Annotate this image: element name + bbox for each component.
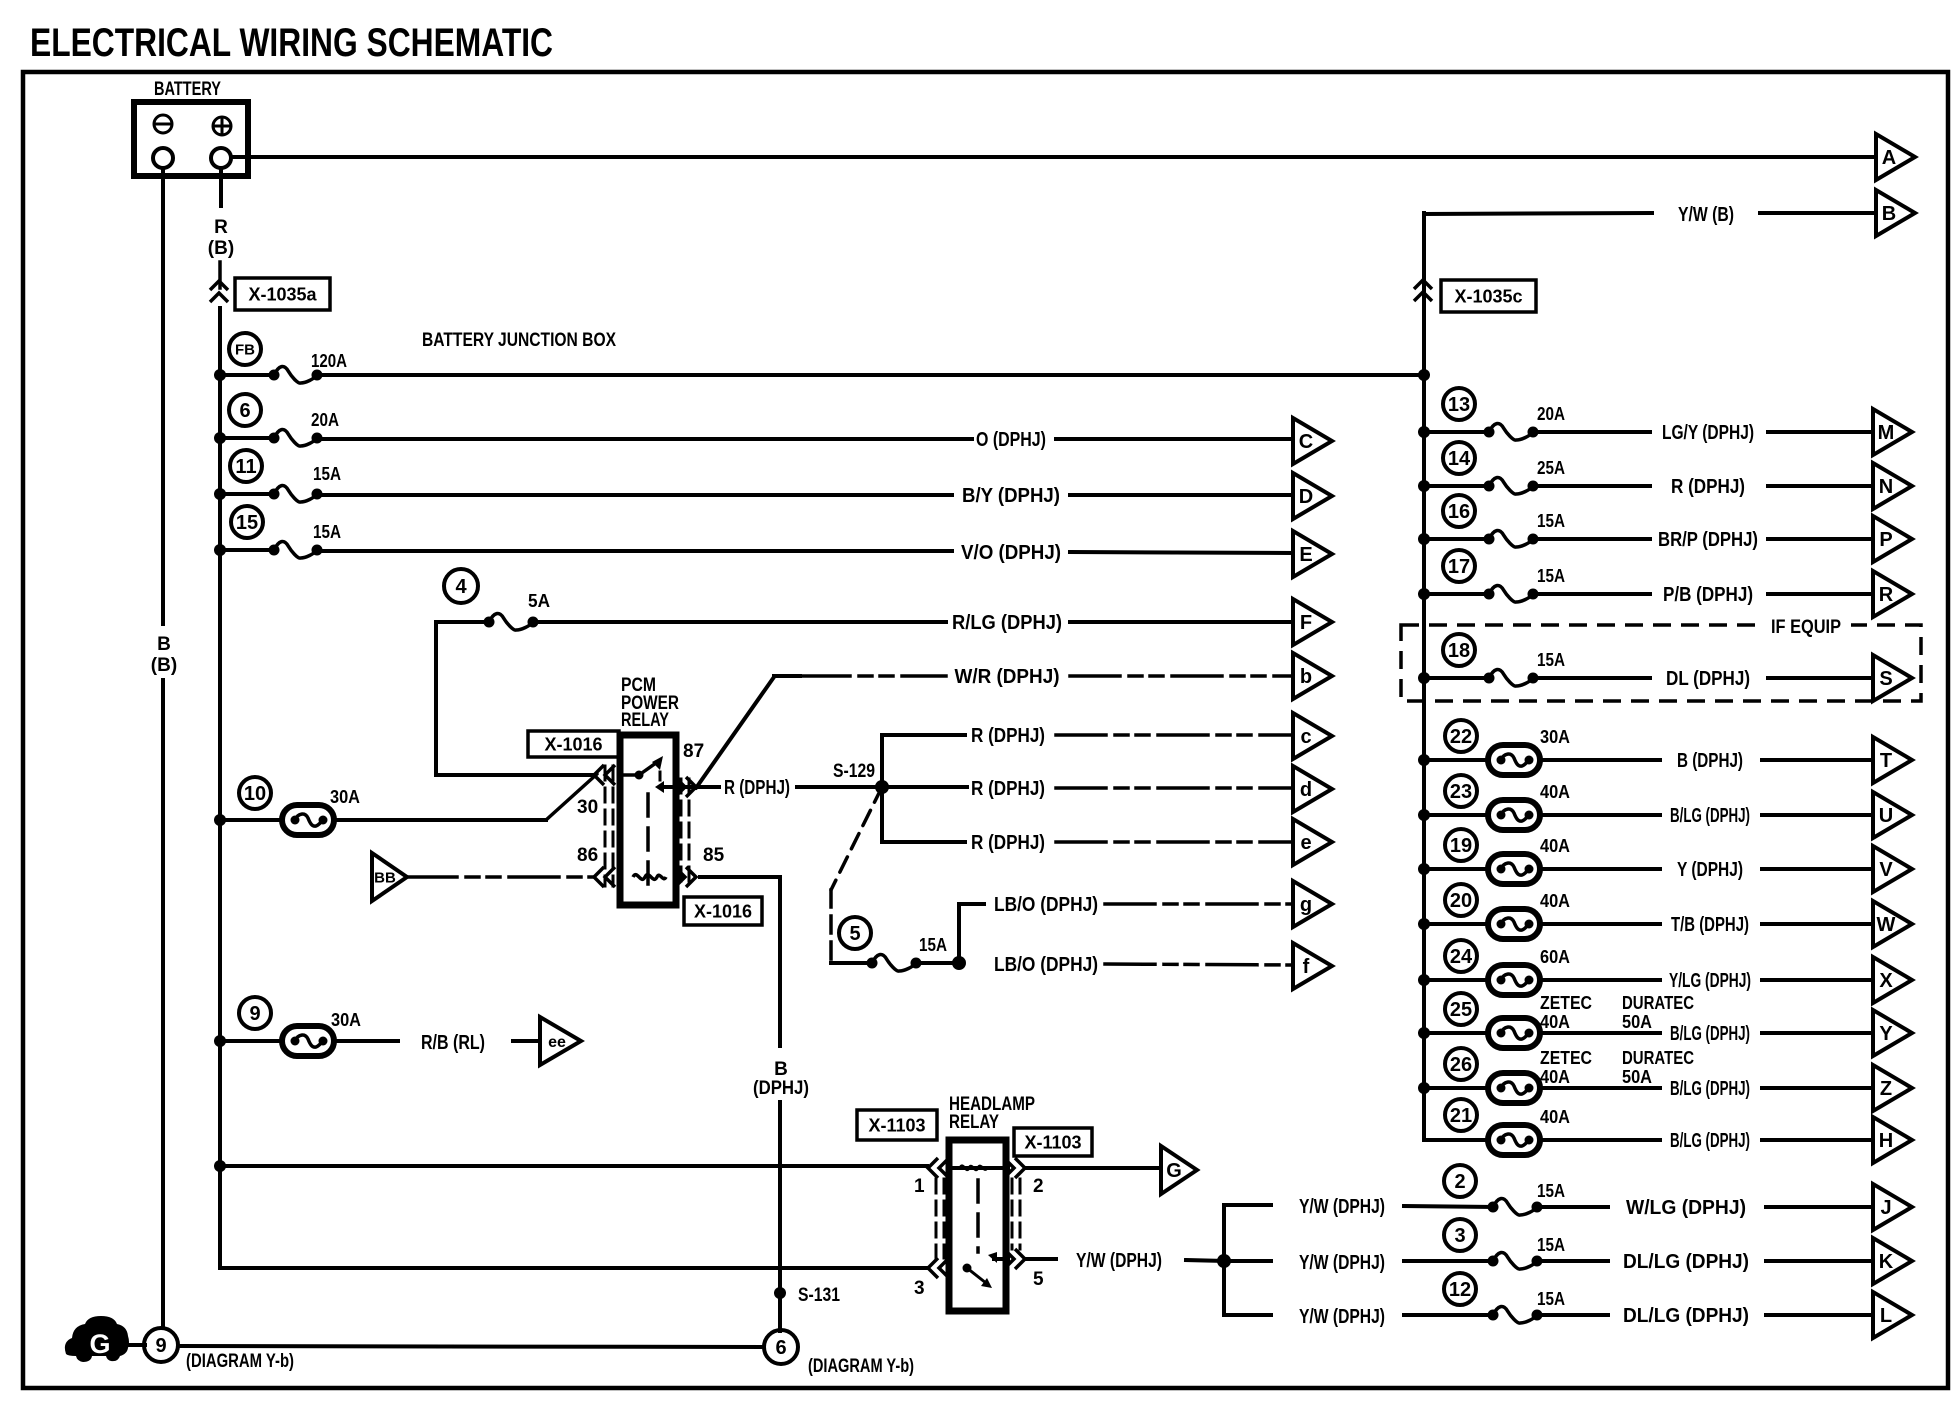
svg-text:B: B bbox=[157, 634, 171, 655]
svg-text:F: F bbox=[1300, 612, 1312, 634]
svg-text:W/R (DPHJ): W/R (DPHJ) bbox=[955, 666, 1060, 688]
svg-text:6: 6 bbox=[239, 400, 250, 422]
wire Y/W (DPHJ) to fuse 3 bbox=[1224, 1259, 1271, 1263]
connector arrow S bbox=[1873, 655, 1912, 701]
wire T/B (DPHJ) row W bbox=[1541, 922, 1660, 926]
svg-text:Y/W (DPHJ): Y/W (DPHJ) bbox=[1299, 1196, 1385, 1218]
svg-text:2: 2 bbox=[1033, 1176, 1044, 1197]
fuse F24 60A bbox=[1445, 940, 1477, 972]
fuse F22 30A bbox=[1445, 720, 1477, 752]
svg-text:D: D bbox=[1299, 486, 1313, 508]
svg-text:18: 18 bbox=[1448, 640, 1470, 662]
svg-text:E: E bbox=[1299, 544, 1312, 566]
svg-text:11: 11 bbox=[235, 456, 256, 478]
svg-text:Y: Y bbox=[1879, 1023, 1893, 1045]
wire B/Y (DPHJ) row D bbox=[317, 493, 952, 497]
fuse F10 30A bbox=[239, 777, 271, 809]
svg-text:20: 20 bbox=[1450, 890, 1472, 912]
wire Y (DPHJ) row V bbox=[1541, 867, 1660, 871]
svg-text:24: 24 bbox=[1450, 946, 1473, 968]
svg-text:DL/LG (DPHJ): DL/LG (DPHJ) bbox=[1623, 1305, 1749, 1327]
svg-text:5A: 5A bbox=[528, 591, 550, 611]
svg-text:30: 30 bbox=[577, 797, 598, 818]
wire pin 2 to arrow G bbox=[1027, 1166, 1161, 1170]
connector arrow N bbox=[1873, 463, 1912, 509]
wire battery positive down R (B) bbox=[219, 168, 223, 206]
svg-text:DURATEC: DURATEC bbox=[1622, 993, 1694, 1013]
svg-text:25A: 25A bbox=[1537, 458, 1565, 478]
connector arrow W bbox=[1873, 901, 1912, 947]
connector arrow A bbox=[1876, 134, 1915, 180]
svg-text:15A: 15A bbox=[919, 935, 947, 955]
fuse F26 40A bbox=[1445, 1048, 1477, 1080]
svg-text:15A: 15A bbox=[1537, 1235, 1565, 1255]
connector arrow G bbox=[1161, 1146, 1197, 1194]
svg-text:23: 23 bbox=[1450, 781, 1472, 803]
wire Y/W (DPHJ) to fuse 2 bbox=[1224, 1203, 1271, 1207]
svg-text:19: 19 bbox=[1450, 835, 1472, 857]
connector arrow T bbox=[1873, 737, 1912, 783]
svg-text:RELAY: RELAY bbox=[621, 710, 669, 731]
fuse FB 120A bbox=[229, 333, 261, 365]
svg-text:Y/W (B): Y/W (B) bbox=[1678, 204, 1734, 226]
svg-text:13: 13 bbox=[1448, 394, 1470, 416]
connector X-1103 right bbox=[1014, 1128, 1092, 1156]
svg-text:5: 5 bbox=[849, 923, 860, 945]
svg-text:Y (DPHJ): Y (DPHJ) bbox=[1677, 859, 1743, 881]
wire R (DPHJ) pin 87 to S-129 bbox=[698, 785, 719, 789]
wire Y/LG (DPHJ) row X bbox=[1541, 978, 1660, 982]
svg-text:50A: 50A bbox=[1622, 1012, 1652, 1032]
svg-text:R (DPHJ): R (DPHJ) bbox=[724, 777, 790, 799]
svg-text:DL/LG (DPHJ): DL/LG (DPHJ) bbox=[1623, 1251, 1749, 1273]
connector arrow Y bbox=[1873, 1010, 1912, 1056]
svg-text:B/LG (DPHJ): B/LG (DPHJ) bbox=[1670, 1023, 1750, 1045]
connector circle 6 bbox=[764, 1330, 798, 1364]
svg-text:B: B bbox=[774, 1059, 788, 1080]
wire 5A tap from relay pin 30 node bbox=[436, 622, 594, 775]
fuse F13 20A bbox=[1443, 388, 1475, 420]
wire W/LG (DPHJ) row J bbox=[1537, 1205, 1608, 1209]
fuse F25 40A bbox=[1445, 993, 1477, 1025]
svg-text:FB: FB bbox=[235, 341, 255, 358]
fuse F17 15A bbox=[1443, 550, 1475, 582]
svg-text:25: 25 bbox=[1450, 999, 1472, 1021]
svg-text:87: 87 bbox=[683, 741, 704, 762]
wire left bus bbox=[218, 308, 222, 1268]
svg-text:B/LG (DPHJ): B/LG (DPHJ) bbox=[1670, 1130, 1750, 1152]
svg-text:J: J bbox=[1880, 1197, 1891, 1219]
connector arrow c bbox=[1293, 713, 1332, 759]
svg-text:R (DPHJ): R (DPHJ) bbox=[971, 725, 1045, 747]
fuse F14 25A bbox=[1443, 442, 1475, 474]
svg-text:ZETEC: ZETEC bbox=[1540, 1048, 1592, 1068]
svg-text:B/Y (DPHJ): B/Y (DPHJ) bbox=[962, 485, 1060, 507]
svg-text:BATTERY JUNCTION BOX: BATTERY JUNCTION BOX bbox=[422, 330, 616, 351]
connector arrow g bbox=[1293, 881, 1332, 927]
svg-text:(DPHJ): (DPHJ) bbox=[753, 1078, 809, 1099]
svg-text:V/O (DPHJ): V/O (DPHJ) bbox=[961, 542, 1061, 564]
node Y/W junction bbox=[1217, 1254, 1231, 1268]
svg-text:5: 5 bbox=[1033, 1269, 1044, 1290]
connector arrow K bbox=[1873, 1238, 1912, 1284]
connector arrow X bbox=[1873, 957, 1912, 1003]
connector arrow d bbox=[1293, 766, 1332, 812]
fuse F23 40A bbox=[1445, 775, 1477, 807]
svg-text:O (DPHJ): O (DPHJ) bbox=[976, 429, 1046, 451]
fuse F11 15A bbox=[230, 450, 262, 482]
svg-text:4: 4 bbox=[455, 576, 467, 598]
svg-text:B: B bbox=[1882, 203, 1896, 225]
svg-text:f: f bbox=[1303, 956, 1310, 978]
svg-text:15: 15 bbox=[236, 512, 258, 534]
wire S-129 to fuse 5 bbox=[831, 787, 882, 890]
wire left bus to headlamp pin 1 bbox=[214, 1160, 226, 1172]
svg-text:C: C bbox=[1299, 431, 1313, 453]
wire B/LG (DPHJ) row U bbox=[1541, 813, 1660, 817]
svg-text:15A: 15A bbox=[1537, 1181, 1565, 1201]
wire R (DPHJ) branch e bbox=[882, 787, 967, 842]
svg-text:30A: 30A bbox=[330, 787, 360, 807]
wire R (DPHJ) row N bbox=[1533, 484, 1650, 488]
svg-text:40A: 40A bbox=[1540, 1012, 1570, 1032]
svg-text:P/B (DPHJ): P/B (DPHJ) bbox=[1663, 584, 1753, 606]
connector arrow e bbox=[1293, 819, 1332, 865]
svg-text:20A: 20A bbox=[311, 410, 339, 430]
svg-text:40A: 40A bbox=[1540, 1107, 1570, 1127]
connector arrow J bbox=[1873, 1184, 1912, 1230]
fuse F21 40A bbox=[1445, 1099, 1477, 1131]
fuse F19 40A bbox=[1445, 829, 1477, 861]
connector X-1103 left bbox=[857, 1110, 937, 1140]
svg-text:G: G bbox=[89, 1329, 110, 1359]
svg-text:B/LG (DPHJ): B/LG (DPHJ) bbox=[1670, 805, 1750, 827]
connector arrow f bbox=[1293, 943, 1332, 989]
svg-text:1: 1 bbox=[914, 1176, 925, 1197]
svg-text:RELAY: RELAY bbox=[949, 1112, 999, 1133]
connector arrow R bbox=[1873, 571, 1912, 617]
fuse F15 15A bbox=[231, 506, 263, 538]
svg-text:S-131: S-131 bbox=[798, 1285, 840, 1306]
wire Y/W (B) row bbox=[1424, 213, 1652, 214]
svg-text:85: 85 bbox=[703, 845, 725, 866]
svg-text:R: R bbox=[214, 217, 228, 238]
svg-text:H: H bbox=[1879, 1130, 1893, 1152]
svg-text:Y/LG (DPHJ): Y/LG (DPHJ) bbox=[1669, 970, 1751, 992]
fuse F16 15A bbox=[1443, 495, 1475, 527]
svg-text:22: 22 bbox=[1450, 726, 1472, 748]
svg-text:14: 14 bbox=[1448, 448, 1471, 470]
svg-text:2: 2 bbox=[1454, 1171, 1465, 1193]
svg-text:LG/Y (DPHJ): LG/Y (DPHJ) bbox=[1662, 422, 1754, 444]
svg-text:U: U bbox=[1879, 805, 1893, 827]
svg-text:LB/O (DPHJ): LB/O (DPHJ) bbox=[994, 954, 1098, 976]
connector X-1016 dashed lines bbox=[604, 766, 607, 886]
svg-text:X-1035a: X-1035a bbox=[248, 284, 317, 304]
svg-text:26: 26 bbox=[1450, 1054, 1472, 1076]
wire Y/W (DPHJ) to fuse 12 bbox=[1224, 1313, 1271, 1317]
svg-text:40A: 40A bbox=[1540, 836, 1570, 856]
svg-text:Y/W (DPHJ): Y/W (DPHJ) bbox=[1299, 1252, 1385, 1274]
svg-text:60A: 60A bbox=[1540, 947, 1570, 967]
fuse F2 15A bbox=[1444, 1165, 1476, 1197]
wire LB/O (DPHJ) row f bbox=[952, 956, 966, 970]
svg-text:d: d bbox=[1300, 779, 1312, 801]
svg-text:9: 9 bbox=[249, 1003, 260, 1025]
ground G bbox=[65, 1316, 129, 1362]
wire battery negative bus B (B) bbox=[161, 168, 165, 624]
svg-text:T/B (DPHJ): T/B (DPHJ) bbox=[1671, 914, 1749, 936]
svg-text:ZETEC: ZETEC bbox=[1540, 993, 1592, 1013]
svg-text:R: R bbox=[1879, 584, 1894, 606]
svg-text:X: X bbox=[1879, 970, 1893, 992]
svg-text:(DIAGRAM Y-b): (DIAGRAM Y-b) bbox=[186, 1351, 294, 1372]
svg-text:R/B (RL): R/B (RL) bbox=[421, 1032, 485, 1054]
node S-131 bbox=[774, 1287, 786, 1299]
svg-text:86: 86 bbox=[577, 845, 598, 866]
wire R (DPHJ) branch d bbox=[882, 785, 967, 789]
connector X-1103 dashed lines bbox=[935, 1179, 938, 1258]
svg-text:X-1035c: X-1035c bbox=[1454, 286, 1522, 306]
connector arrow F bbox=[1293, 599, 1332, 645]
svg-text:R (DPHJ): R (DPHJ) bbox=[971, 832, 1045, 854]
wire P/B (DPHJ) row R bbox=[1533, 592, 1650, 596]
fuse F9 30A bbox=[239, 997, 271, 1029]
wire DL (DPHJ) row S bbox=[1533, 676, 1650, 680]
svg-text:BATTERY: BATTERY bbox=[154, 79, 221, 100]
wire BB to pin 86 bbox=[407, 875, 592, 879]
svg-text:15A: 15A bbox=[313, 464, 341, 484]
wire V/O (DPHJ) row E bbox=[317, 549, 952, 553]
svg-text:Y/W (DPHJ): Y/W (DPHJ) bbox=[1299, 1306, 1385, 1328]
svg-text:6: 6 bbox=[775, 1337, 786, 1359]
svg-text:50A: 50A bbox=[1622, 1067, 1652, 1087]
svg-text:3: 3 bbox=[914, 1278, 925, 1299]
svg-text:DURATEC: DURATEC bbox=[1622, 1048, 1694, 1068]
wire R/LG (DPHJ) row F bbox=[533, 620, 946, 624]
svg-text:B/LG (DPHJ): B/LG (DPHJ) bbox=[1670, 1078, 1750, 1100]
svg-text:15A: 15A bbox=[1537, 1289, 1565, 1309]
svg-text:40A: 40A bbox=[1540, 1067, 1570, 1087]
svg-text:15A: 15A bbox=[1537, 650, 1565, 670]
wire R (DPHJ) branch c bbox=[882, 735, 967, 787]
svg-text:ELECTRICAL WIRING SCHEMATIC: ELECTRICAL WIRING SCHEMATIC bbox=[30, 21, 553, 65]
fuse F3 15A bbox=[1444, 1219, 1476, 1251]
wire O (DPHJ) row C bbox=[317, 437, 972, 441]
svg-text:(B): (B) bbox=[151, 655, 177, 676]
svg-text:21: 21 bbox=[1450, 1105, 1472, 1127]
connector arrow D bbox=[1293, 473, 1332, 519]
svg-text:16: 16 bbox=[1448, 501, 1470, 523]
svg-text:10: 10 bbox=[244, 783, 266, 805]
wire B/LG (DPHJ) row Y bbox=[1541, 1031, 1660, 1035]
svg-text:Z: Z bbox=[1880, 1078, 1892, 1100]
svg-text:R/LG (DPHJ): R/LG (DPHJ) bbox=[952, 612, 1062, 634]
fuse F18 15A bbox=[1443, 634, 1475, 666]
svg-text:R (DPHJ): R (DPHJ) bbox=[971, 778, 1045, 800]
svg-text:17: 17 bbox=[1448, 556, 1470, 578]
svg-text:S-129: S-129 bbox=[833, 761, 875, 782]
svg-text:W/LG (DPHJ): W/LG (DPHJ) bbox=[1626, 1197, 1746, 1219]
svg-text:40A: 40A bbox=[1540, 891, 1570, 911]
svg-text:R (DPHJ): R (DPHJ) bbox=[1671, 476, 1745, 498]
wire LG/Y (DPHJ) row M bbox=[1533, 430, 1650, 434]
fuse F6 20A bbox=[229, 394, 261, 426]
wire DL/LG (DPHJ) row L bbox=[1537, 1313, 1608, 1317]
wire B (DPHJ) pin 85 down bbox=[698, 877, 780, 1048]
svg-text:g: g bbox=[1300, 894, 1312, 916]
svg-text:IF EQUIP: IF EQUIP bbox=[1771, 617, 1841, 638]
fuse F20 40A bbox=[1445, 884, 1477, 916]
connector arrow L bbox=[1873, 1292, 1912, 1338]
relay U1 PCM power relay bbox=[620, 735, 676, 905]
svg-text:S: S bbox=[1879, 668, 1892, 690]
connector arrow V bbox=[1873, 846, 1912, 892]
svg-text:e: e bbox=[1300, 832, 1311, 854]
fuse F12 15A bbox=[1444, 1273, 1476, 1305]
svg-text:M: M bbox=[1878, 422, 1895, 444]
wire W/R (DPHJ) row b bbox=[696, 677, 774, 788]
svg-text:X-1103: X-1103 bbox=[868, 1115, 925, 1135]
svg-text:BB: BB bbox=[374, 869, 396, 886]
wire LB/O (DPHJ) row g bbox=[959, 904, 986, 963]
connector arrow C bbox=[1293, 418, 1332, 464]
svg-text:15A: 15A bbox=[1537, 566, 1565, 586]
svg-text:L: L bbox=[1880, 1305, 1892, 1327]
svg-text:ee: ee bbox=[548, 1034, 566, 1051]
svg-text:15A: 15A bbox=[313, 522, 341, 542]
wire Y/W (DPHJ) pin 5 bbox=[1027, 1257, 1056, 1261]
connector arrow B bbox=[1876, 190, 1915, 236]
connector X-1016 upper bbox=[528, 731, 619, 757]
svg-text:30A: 30A bbox=[1540, 727, 1570, 747]
fuse F4 5A bbox=[444, 569, 478, 603]
svg-text:3: 3 bbox=[1454, 1225, 1465, 1247]
wire BR/P (DPHJ) row P bbox=[1533, 537, 1650, 541]
wire left bus to headlamp pin 3 bbox=[220, 1266, 927, 1270]
svg-text:DL (DPHJ): DL (DPHJ) bbox=[1666, 668, 1750, 690]
connector X-1016 lower bbox=[684, 897, 762, 925]
svg-text:120A: 120A bbox=[311, 351, 347, 371]
fuse F5 15A bbox=[839, 917, 871, 949]
svg-text:c: c bbox=[1300, 726, 1311, 748]
connector arrow b bbox=[1293, 653, 1332, 699]
wire right bus bbox=[1422, 213, 1426, 1140]
wire fuse 10 to relay pin 30 bbox=[335, 818, 546, 822]
connector arrow BB bbox=[372, 853, 407, 901]
svg-text:X-1016: X-1016 bbox=[694, 901, 752, 921]
svg-text:20A: 20A bbox=[1537, 404, 1565, 424]
svg-text:K: K bbox=[1879, 1251, 1894, 1273]
wire DL/LG (DPHJ) row K bbox=[1537, 1259, 1608, 1263]
svg-text:W: W bbox=[1877, 914, 1896, 936]
svg-text:(DIAGRAM Y-b): (DIAGRAM Y-b) bbox=[808, 1356, 914, 1377]
connector arrow ee bbox=[540, 1017, 581, 1065]
svg-text:(B): (B) bbox=[208, 238, 234, 259]
wire ground bus bottom bbox=[178, 1346, 764, 1347]
wire 120A feed to right bus bbox=[317, 373, 1424, 377]
IF EQUIP box bbox=[1401, 625, 1921, 701]
connector circle 9 bbox=[144, 1328, 178, 1362]
connector arrow Z bbox=[1873, 1065, 1912, 1111]
svg-text:V: V bbox=[1879, 859, 1893, 881]
svg-text:BR/P (DPHJ): BR/P (DPHJ) bbox=[1658, 529, 1758, 551]
svg-text:9: 9 bbox=[155, 1335, 166, 1357]
wire B (DPHJ) row T bbox=[1541, 758, 1660, 762]
connector X-1035a bbox=[210, 281, 228, 290]
svg-text:G: G bbox=[1166, 1160, 1182, 1182]
wire B/LG (DPHJ) row Z bbox=[1541, 1086, 1660, 1090]
connector X-1035c bbox=[1414, 280, 1432, 289]
svg-text:B (DPHJ): B (DPHJ) bbox=[1677, 750, 1743, 772]
wire B/LG (DPHJ) row H bbox=[1541, 1138, 1660, 1142]
connector arrow H bbox=[1873, 1117, 1912, 1163]
wire battery positive to arrow A bbox=[231, 155, 1876, 159]
svg-text:30A: 30A bbox=[331, 1010, 361, 1030]
wire R/B (RL) bbox=[335, 1039, 398, 1043]
svg-text:12: 12 bbox=[1449, 1279, 1471, 1301]
svg-text:X-1016: X-1016 bbox=[544, 734, 602, 754]
svg-text:T: T bbox=[1880, 750, 1892, 772]
connector arrow U bbox=[1873, 792, 1912, 838]
connector arrow E bbox=[1293, 531, 1332, 577]
relay K2 headlamp relay bbox=[949, 1140, 1006, 1311]
svg-text:A: A bbox=[1882, 147, 1896, 169]
svg-text:N: N bbox=[1879, 476, 1893, 498]
svg-text:15A: 15A bbox=[1537, 511, 1565, 531]
svg-text:X-1103: X-1103 bbox=[1024, 1132, 1081, 1152]
svg-text:P: P bbox=[1879, 529, 1892, 551]
svg-text:Y/W (DPHJ): Y/W (DPHJ) bbox=[1076, 1250, 1162, 1272]
svg-text:LB/O (DPHJ): LB/O (DPHJ) bbox=[994, 894, 1098, 916]
connector arrow M bbox=[1873, 409, 1912, 455]
connector arrow P bbox=[1873, 516, 1912, 562]
svg-text:b: b bbox=[1300, 666, 1312, 688]
svg-text:40A: 40A bbox=[1540, 782, 1570, 802]
